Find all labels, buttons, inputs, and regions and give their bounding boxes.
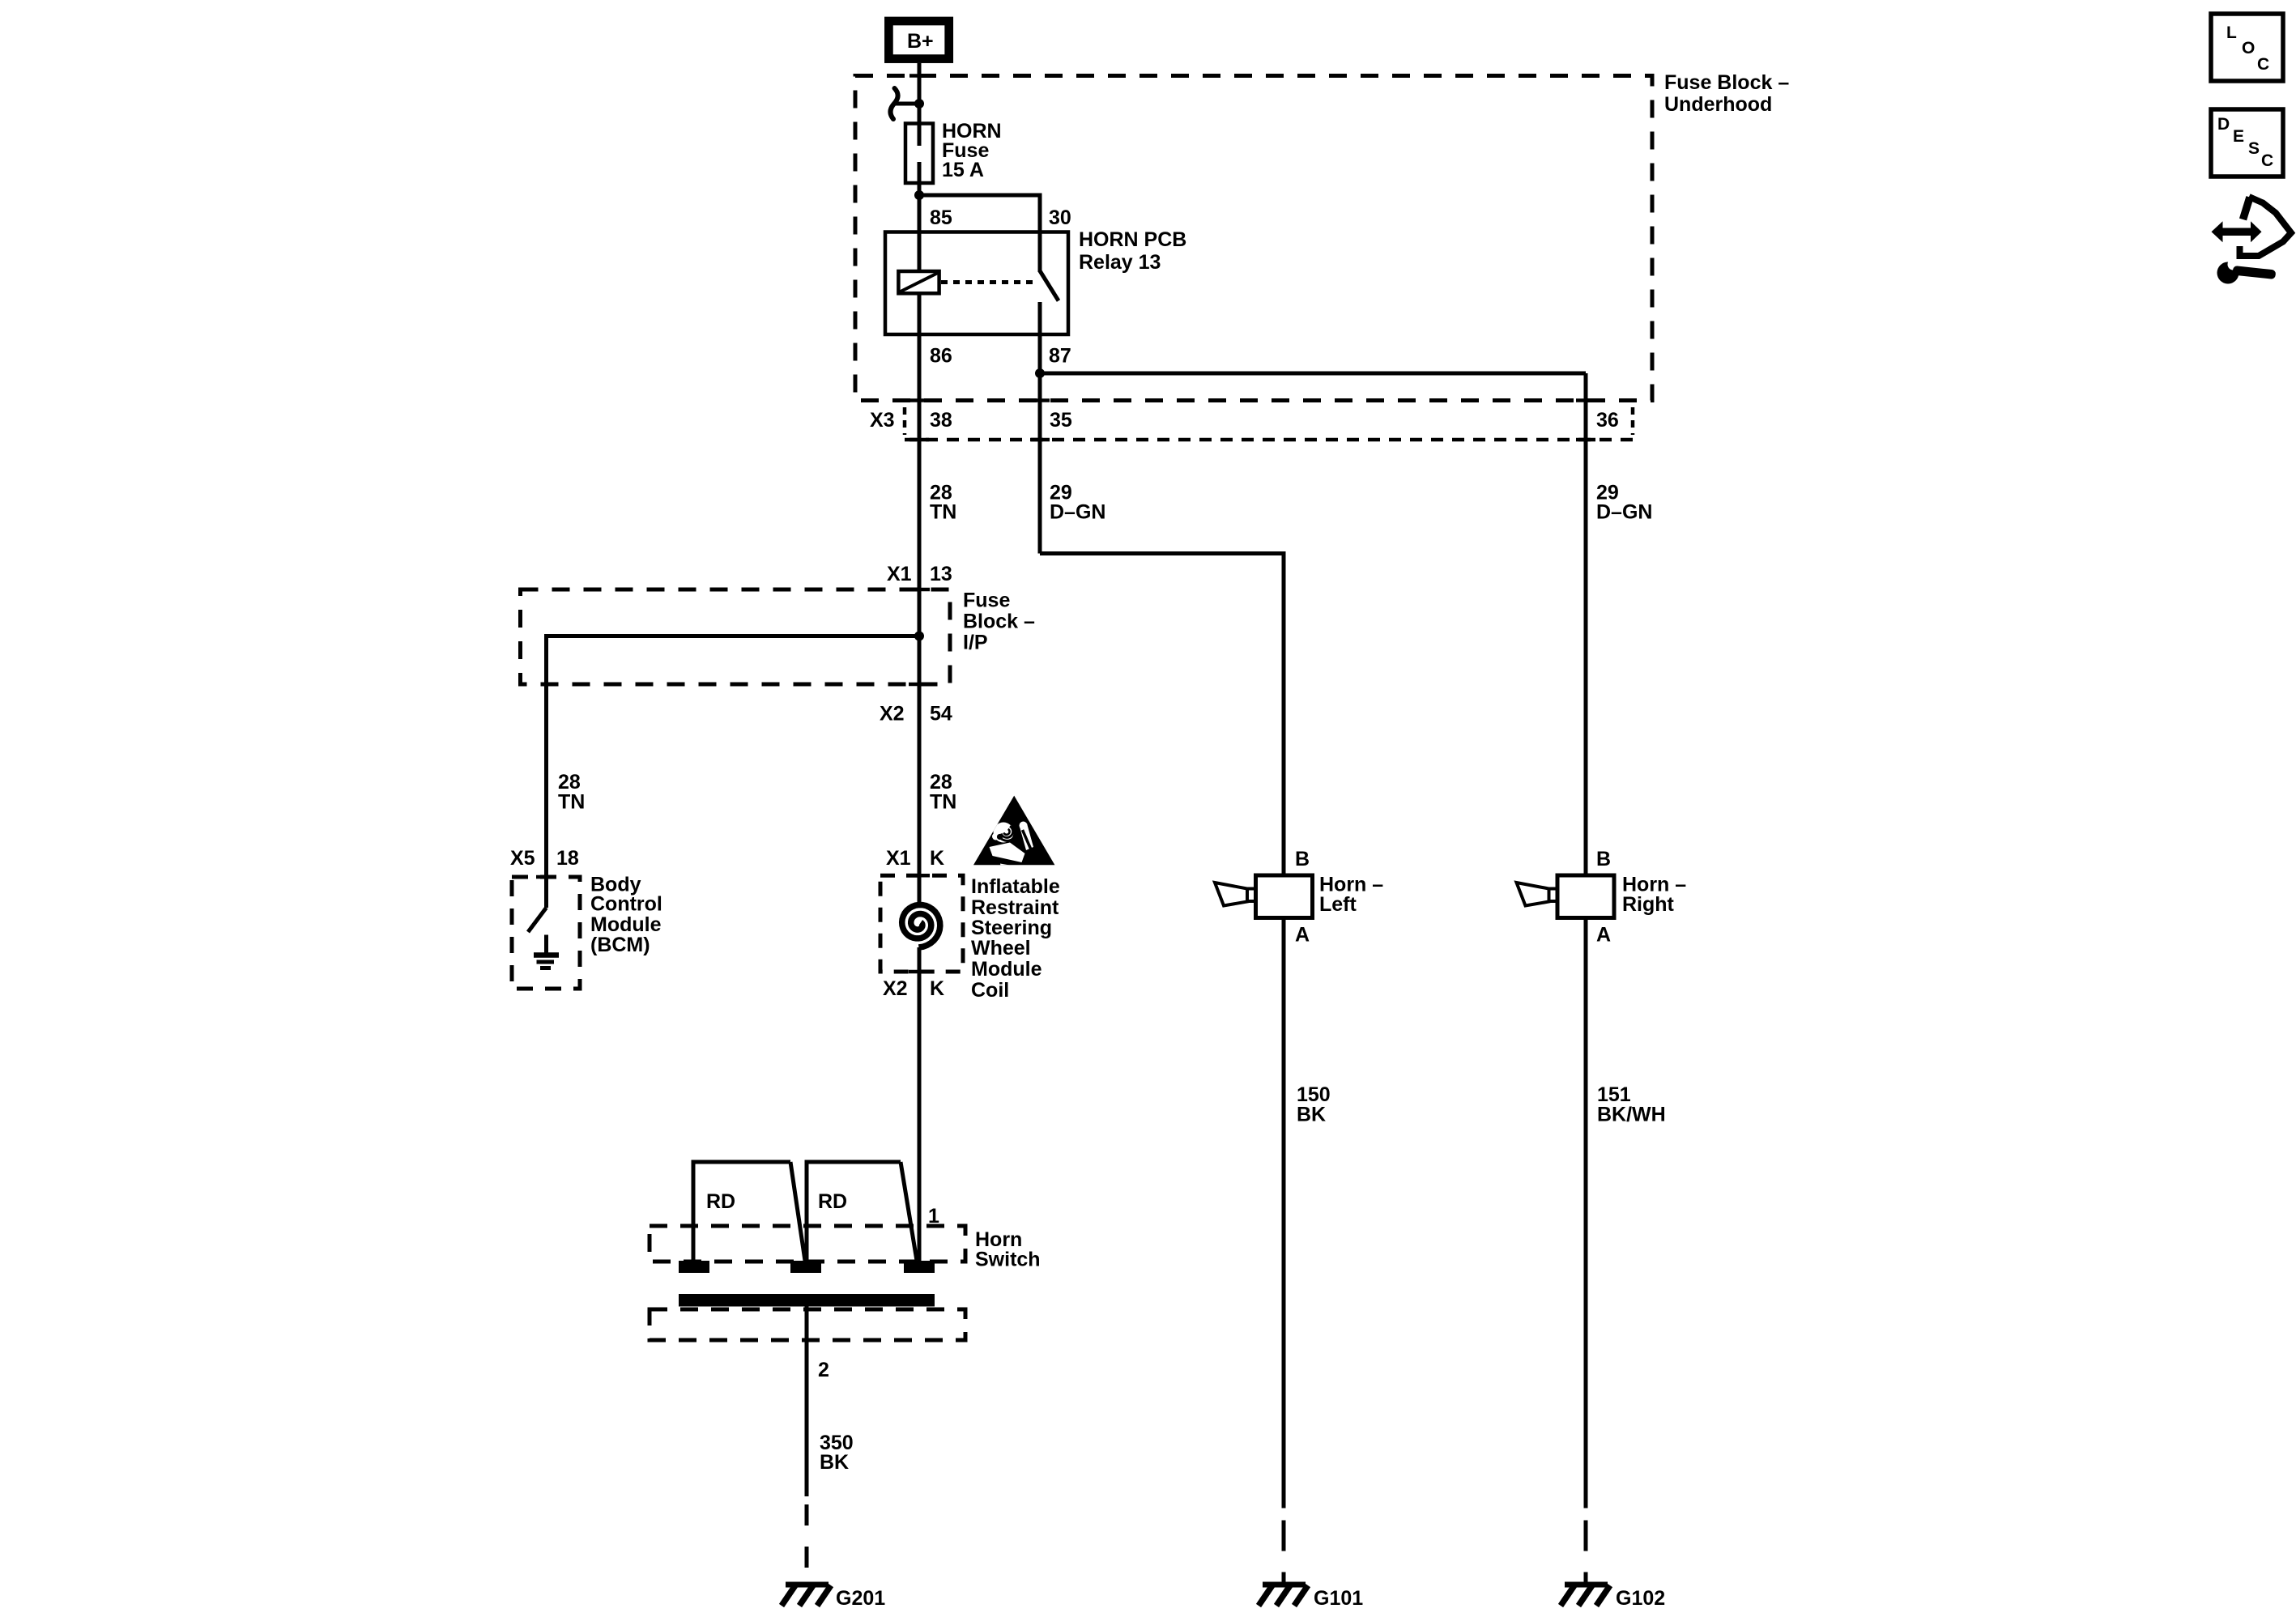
svg-text:A: A bbox=[1295, 924, 1310, 947]
horn left trumpet icon bbox=[1215, 883, 1256, 906]
wire fuse to relay coil pin 85 bbox=[918, 183, 922, 233]
tick I/P top bbox=[909, 588, 930, 592]
branch wire to BCM bbox=[547, 636, 920, 908]
svg-text:TN: TN bbox=[558, 791, 585, 814]
wire jog to horn left bbox=[1040, 554, 1284, 876]
svg-text:E: E bbox=[2233, 127, 2244, 146]
connector label X2 K bbox=[883, 977, 944, 1000]
svg-text:Underhood: Underhood bbox=[1664, 93, 1772, 116]
svg-text:HORN PCB: HORN PCB bbox=[1079, 228, 1186, 251]
svg-text:Coil: Coil bbox=[971, 979, 1009, 1002]
svg-text:D–GN: D–GN bbox=[1596, 501, 1652, 524]
svg-text:38: 38 bbox=[930, 409, 952, 432]
tick at underhood box top bbox=[909, 74, 929, 78]
horn switch left contact branch bbox=[693, 1162, 790, 1261]
clockspring coil spiral bbox=[902, 905, 940, 948]
svg-text:Wheel: Wheel bbox=[971, 937, 1031, 960]
wire horn right to ground bbox=[1584, 918, 1588, 1508]
wire label 29 D-GN left bbox=[1050, 482, 1105, 524]
svg-text:2: 2 bbox=[818, 1359, 829, 1381]
junction dot at 85/30 split bbox=[914, 190, 924, 200]
svg-text:TN: TN bbox=[930, 501, 956, 524]
fuse block I/P label bbox=[963, 589, 1035, 654]
steering wheel coil dashed box bbox=[880, 875, 963, 972]
wire from common bar down bbox=[805, 1307, 809, 1497]
horn switch dashed box bbox=[650, 1226, 965, 1262]
svg-text:X1: X1 bbox=[887, 563, 912, 585]
contact pad right bbox=[904, 1261, 935, 1273]
svg-text:O: O bbox=[2242, 39, 2255, 57]
wire through I/P block bbox=[918, 589, 922, 875]
wire 87 down through connector 35 bbox=[1038, 373, 1042, 554]
hand tool hotlink icon bbox=[2212, 197, 2292, 284]
wire label 28 TN to BCM bbox=[558, 771, 585, 814]
svg-text:13: 13 bbox=[930, 563, 952, 585]
tick BCM top bbox=[536, 875, 556, 879]
svg-text:36: 36 bbox=[1596, 409, 1619, 432]
svg-text:BK/WH: BK/WH bbox=[1597, 1104, 1666, 1126]
connector X3 left separator bbox=[903, 407, 907, 435]
svg-text:B: B bbox=[1295, 848, 1310, 870]
svg-text:Restraint: Restraint bbox=[971, 896, 1059, 919]
svg-text:G201: G201 bbox=[836, 1587, 885, 1610]
svg-text:87: 87 bbox=[1049, 345, 1071, 368]
wire label 29 D-GN right bbox=[1596, 482, 1652, 524]
DESC hotlink box bbox=[2211, 109, 2283, 177]
wire label 150 BK bbox=[1297, 1083, 1331, 1126]
connector label X5 18 bbox=[510, 847, 579, 870]
body control module BCM dashed box bbox=[512, 877, 580, 989]
svg-text:D: D bbox=[2217, 115, 2230, 134]
relay coil element bbox=[898, 271, 939, 293]
horn switch right blade bbox=[901, 1162, 917, 1261]
svg-text:B+: B+ bbox=[907, 30, 934, 53]
horn right trumpet icon bbox=[1517, 883, 1558, 906]
BCM label bbox=[590, 874, 662, 957]
svg-text:C: C bbox=[2257, 55, 2269, 74]
relay switch lower stub, pin 87 bbox=[1038, 302, 1042, 373]
junction dot at bus tap bbox=[914, 99, 924, 109]
fuse HORN 15A symbol bbox=[905, 124, 933, 184]
contact pad middle bbox=[790, 1261, 821, 1273]
wire B+ to fuse bbox=[918, 63, 922, 126]
connector label X2 54 bbox=[880, 703, 952, 726]
svg-text:Inflatable: Inflatable bbox=[971, 875, 1060, 898]
svg-text:L: L bbox=[2226, 23, 2237, 42]
bus tap curl symbol bbox=[890, 88, 897, 119]
wire label 151 BK/WH bbox=[1597, 1083, 1666, 1126]
svg-text:X3: X3 bbox=[870, 409, 895, 432]
horn switch label bbox=[975, 1228, 1041, 1271]
horn right component box bbox=[1557, 875, 1614, 918]
tick I/P bottom bbox=[909, 683, 930, 687]
svg-text:X1: X1 bbox=[886, 847, 911, 870]
BCM internal ground bbox=[534, 935, 559, 968]
svg-text:RD: RD bbox=[818, 1190, 847, 1213]
svg-text:Fuse: Fuse bbox=[963, 589, 1010, 612]
connector label X1 13 bbox=[887, 563, 952, 585]
svg-text:54: 54 bbox=[930, 703, 952, 726]
ground G101 bbox=[1259, 1585, 1363, 1610]
svg-text:K: K bbox=[930, 847, 944, 870]
svg-text:S: S bbox=[2248, 139, 2260, 158]
svg-text:X2: X2 bbox=[883, 977, 908, 1000]
svg-text:I/P: I/P bbox=[963, 632, 988, 654]
bus tap bar wire bbox=[893, 102, 919, 106]
horn switch common bar bbox=[679, 1294, 935, 1307]
svg-text:Module: Module bbox=[590, 913, 662, 936]
wire label 28 TN main bbox=[930, 771, 956, 814]
svg-text:D–GN: D–GN bbox=[1050, 501, 1105, 524]
relay switch blade bbox=[1040, 271, 1059, 301]
svg-text:Steering: Steering bbox=[971, 917, 1052, 939]
svg-text:G102: G102 bbox=[1616, 1587, 1665, 1610]
connector X3 right separator bbox=[1631, 407, 1635, 435]
svg-text:85: 85 bbox=[930, 206, 952, 229]
svg-text:Module: Module bbox=[971, 958, 1042, 981]
SIR caution triangle bbox=[973, 796, 1054, 871]
relay actuation dashed link bbox=[941, 280, 1037, 284]
horn left label bbox=[1319, 874, 1383, 916]
dashed wire to G101 bbox=[1282, 1521, 1286, 1585]
wire 87 horizontal branch to right bbox=[1040, 372, 1586, 376]
coil module label bbox=[971, 875, 1060, 1002]
tick coil box bottom bbox=[909, 970, 930, 974]
svg-text:Left: Left bbox=[1319, 893, 1357, 916]
fuse block underhood label bbox=[1664, 71, 1789, 116]
wire down to horn right bbox=[1584, 373, 1588, 875]
svg-text:TN: TN bbox=[930, 791, 956, 814]
contact pad left bbox=[679, 1261, 709, 1273]
svg-text:35: 35 bbox=[1050, 409, 1072, 432]
svg-text:A: A bbox=[1596, 924, 1611, 947]
svg-text:X2: X2 bbox=[880, 703, 905, 726]
svg-text:X5: X5 bbox=[510, 847, 535, 870]
B+ battery terminal box bbox=[888, 21, 948, 59]
fuse label bbox=[942, 120, 1002, 181]
relay coil through-wire 85 to 86 bbox=[918, 232, 922, 335]
svg-text:BK: BK bbox=[820, 1451, 849, 1474]
svg-text:Switch: Switch bbox=[975, 1249, 1041, 1271]
svg-text:15 A: 15 A bbox=[942, 159, 984, 181]
horn switch middle contact branch bbox=[807, 1162, 901, 1261]
fuse block I/P dashed box bbox=[521, 589, 951, 684]
dashed wire to G102 bbox=[1584, 1521, 1588, 1585]
svg-text:C: C bbox=[2261, 151, 2273, 170]
connector row ticks bbox=[909, 401, 1595, 440]
ground G102 bbox=[1561, 1585, 1665, 1610]
junction dot at 87 branch bbox=[1035, 368, 1045, 378]
wire into coil bbox=[918, 875, 922, 904]
svg-text:86: 86 bbox=[930, 345, 952, 368]
relay K13 box bbox=[885, 232, 1068, 335]
horn switch left blade bbox=[790, 1162, 805, 1261]
wire horn left to ground bbox=[1282, 918, 1286, 1508]
tick coil box top bbox=[909, 874, 930, 878]
wire to relay pin 30 bbox=[919, 195, 1040, 272]
BCM internal switch blade bbox=[528, 908, 547, 932]
svg-text:30: 30 bbox=[1049, 206, 1071, 229]
wire out of coil down to horn switch bbox=[918, 947, 922, 1261]
horn left component box bbox=[1256, 875, 1313, 918]
fuse block underhood dashed box bbox=[855, 76, 1652, 401]
svg-text:Control: Control bbox=[590, 893, 662, 916]
svg-text:B: B bbox=[1596, 848, 1611, 870]
svg-text:G101: G101 bbox=[1314, 1587, 1363, 1610]
svg-text:BK: BK bbox=[1297, 1104, 1326, 1126]
svg-text:Block –: Block – bbox=[963, 611, 1035, 633]
dashed wire to G201 bbox=[805, 1504, 809, 1585]
junction dot in I/P block bbox=[914, 632, 924, 641]
horn right label bbox=[1622, 874, 1686, 916]
svg-text:Fuse Block –: Fuse Block – bbox=[1664, 71, 1789, 94]
svg-text:Right: Right bbox=[1622, 893, 1675, 916]
ground G201 bbox=[782, 1585, 885, 1610]
LOC hotlink box bbox=[2211, 14, 2283, 81]
connector X3 row bottom dotted line bbox=[905, 438, 1633, 442]
wire 86 down from relay bbox=[918, 334, 922, 589]
wire label 350 BK bbox=[820, 1432, 854, 1474]
svg-text:K: K bbox=[930, 977, 944, 1000]
wire label 28 TN circuit bbox=[930, 482, 956, 524]
svg-text:(BCM): (BCM) bbox=[590, 934, 650, 956]
svg-text:Relay 13: Relay 13 bbox=[1079, 251, 1161, 274]
horn switch lower dashed box bbox=[650, 1309, 965, 1340]
connector label X1 K bbox=[886, 847, 944, 870]
svg-text:18: 18 bbox=[556, 847, 579, 870]
relay label bbox=[1079, 228, 1186, 274]
svg-text:RD: RD bbox=[706, 1190, 735, 1213]
